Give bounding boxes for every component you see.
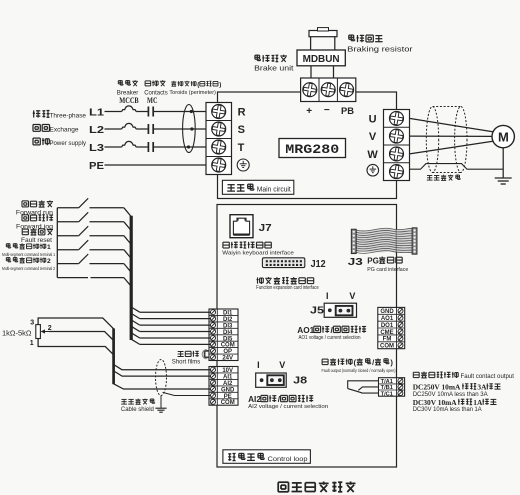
label Power supply: [50, 140, 87, 147]
wire switch row 6 into bundle: [124, 278, 131, 287]
cable shield ellipse (analog): [156, 360, 167, 396]
wire brake unit to - terminal: [333, 66, 335, 78]
label control loop (Chinese): [228, 453, 264, 461]
svg-text:1kΩ-5kΩ: 1kΩ-5kΩ: [2, 328, 32, 337]
wire U to motor: [410, 118, 493, 131]
wire bundle to terminal row 5: [131, 333, 210, 338]
svg-text:Toroids (perimeter): Toroids (perimeter): [169, 90, 216, 96]
svg-text:DC30V 10mA less than 1A: DC30V 10mA less than 1A: [413, 406, 483, 413]
label cable shield (motor, Chinese): [427, 175, 460, 181]
label S2 forward jog (English): [16, 223, 54, 230]
jumper J8: [256, 373, 287, 387]
wire shield drain to PE: [163, 392, 211, 395]
svg-text:Fault output (normally closed: Fault output (normally closed / normally…: [322, 368, 397, 373]
wire bundle to GND: [114, 384, 211, 389]
svg-text:3: 3: [30, 320, 34, 327]
svg-text:J12: J12: [311, 258, 326, 270]
wire L2 to terminal: [154, 128, 212, 130]
wire braking resistor to brake unit (right lead): [334, 37, 336, 50]
title electrical wiring example: [278, 482, 355, 493]
terminal label W: [367, 149, 378, 161]
svg-text:AI2: AI2: [223, 381, 233, 387]
svg-text:CME: CME: [380, 330, 393, 336]
label Exchange: [50, 127, 79, 134]
label Toroids (perimeter): [169, 90, 216, 96]
potentiometer body: [36, 325, 41, 339]
svg-text:): ): [390, 358, 393, 367]
label cable shield (analog, Chinese): [121, 399, 154, 405]
motor earth stem: [502, 148, 504, 178]
label toroid core (Chinese): [171, 81, 221, 88]
potentiometer wiper arrow: [41, 329, 49, 333]
wire V to motor: [410, 135, 493, 137]
svg-text:GND: GND: [380, 309, 394, 315]
svg-text:L3: L3: [89, 142, 104, 154]
terminal strip T/A1 T/B1 T/C1 (relay): [379, 378, 405, 398]
shorting tab (OP to 24V): [202, 350, 209, 359]
wire braking resistor to brake unit (left lead): [310, 37, 312, 50]
wire L3 to terminal: [154, 146, 212, 148]
svg-text:MC: MC: [147, 96, 158, 105]
wire pot terminal 1 into bundle: [38, 339, 114, 355]
svg-text:Multi-segment command terminal: Multi-segment command terminal 2: [2, 266, 56, 271]
svg-text:GND: GND: [221, 387, 235, 393]
label L1: [89, 106, 104, 118]
svg-text:1: 1: [30, 340, 34, 347]
label exchange: [33, 125, 50, 132]
svg-text:DI5: DI5: [223, 336, 233, 342]
common bus for switches: [56, 208, 58, 278]
svg-text:Waiyin keyboard interface: Waiyin keyboard interface: [222, 251, 294, 257]
svg-text:FM: FM: [383, 337, 392, 343]
svg-text:Function expansion card interf: Function expansion card interface: [256, 285, 319, 291]
wire bundle to terminal row 1: [131, 307, 210, 312]
control loop enclosure box: [217, 205, 397, 468]
brake unit MDBUN box: [297, 50, 345, 66]
svg-text:Multi-segment command terminal: Multi-segment command terminal 1: [2, 252, 56, 257]
terminal block R S T PE (input): [206, 103, 232, 175]
wire brake unit to + terminal: [310, 66, 312, 78]
label PG card interface: [367, 267, 408, 273]
label S1 forward run (English): [16, 209, 54, 216]
svg-text:−: −: [324, 105, 330, 116]
wire W to motor: [410, 141, 493, 154]
svg-text:DI3: DI3: [223, 323, 233, 329]
label S5 multi-segment 2 (English): [2, 266, 56, 271]
svg-text:L1: L1: [89, 106, 104, 118]
wire PE to terminal: [105, 164, 213, 166]
svg-text:V: V: [349, 291, 355, 301]
label fault output normally closed/open (Chinese): [322, 358, 393, 367]
label PE: [89, 160, 104, 172]
ground terminal symbol (output PE): [367, 164, 379, 176]
wire switch row 2 into bundle: [124, 222, 131, 231]
label S2 forward jog (Chinese): [22, 215, 53, 222]
label +: [306, 106, 312, 117]
switch S3 fault reset: [57, 226, 124, 236]
shield to earth wire: [160, 396, 162, 408]
label pot terminal 3: [30, 320, 34, 327]
wire COM from bus: [57, 277, 124, 279]
svg-text:OP: OP: [223, 349, 232, 355]
svg-text:AI2 voltage / current selectio: AI2 voltage / current selection: [248, 404, 328, 410]
wire bundle to terminal row 2: [131, 313, 210, 318]
svg-text:DI4: DI4: [223, 330, 233, 336]
label S5 multi-segment 2 (Chinese): [6, 257, 51, 265]
toroid ring core (3-phase choke): [183, 105, 196, 153]
terminal strip + - PB: [301, 78, 356, 102]
label S3 fault reset (Chinese): [22, 228, 53, 235]
switch S4 multi-segment 1: [57, 240, 124, 250]
svg-text:J3: J3: [348, 256, 363, 268]
label power source: [33, 138, 49, 145]
label -: [324, 105, 330, 116]
label S3 fault reset (English): [21, 237, 52, 244]
jumper J5: [324, 303, 356, 317]
earth ground (motor): [495, 178, 512, 184]
contactor MC contact on L2: [136, 124, 153, 134]
label Cable shield: [121, 406, 154, 413]
svg-text:Braking resistor: Braking resistor: [347, 44, 413, 53]
label pot terminal 1: [30, 340, 34, 347]
svg-text:PG: PG: [367, 256, 379, 265]
wire switch row 3 into bundle: [124, 236, 131, 245]
label main circuit (Chinese): [227, 184, 254, 192]
svg-text:PG card interface: PG card interface: [367, 267, 408, 273]
svg-text:T/B1: T/B1: [381, 385, 393, 391]
label AO1 voltage / current selection: [299, 335, 361, 341]
terminal label R: [238, 107, 246, 119]
label pot terminal 2: [48, 325, 52, 332]
label AI2 voltage / current selection: [248, 404, 328, 410]
wire switch row 5 into bundle: [124, 264, 131, 273]
wire L2 with breaker MCCB: [105, 123, 137, 129]
frequency inverter main-circuit enclosure box: [218, 92, 397, 199]
analog wire bundle: [112, 328, 115, 384]
label external keyboard interface (Chinese): [223, 242, 271, 249]
svg-text:J8: J8: [293, 375, 307, 387]
label Three-phase: [50, 113, 87, 120]
svg-text:PB: PB: [341, 106, 354, 117]
connector J12 (pin header): [262, 258, 304, 268]
contactor MC contact on L1: [136, 107, 153, 117]
switch S5 multi-segment 2: [57, 254, 124, 264]
svg-text:10V: 10V: [222, 368, 233, 374]
svg-text:AI2: AI2: [248, 395, 261, 404]
label J8: [293, 375, 307, 387]
motor M: [492, 125, 514, 147]
label J5: [310, 305, 324, 317]
svg-text:PE: PE: [89, 160, 104, 172]
label I (J5): [326, 291, 329, 301]
svg-text:AO1: AO1: [381, 316, 394, 322]
svg-text:Fault contact output: Fault contact output: [461, 373, 515, 380]
label Function expansion card interface: [256, 285, 319, 291]
terminal strip DI1-DI5 COM OP 24V: [209, 309, 238, 362]
wire switch row 1 into bundle: [124, 208, 131, 217]
terminal block U V W (output): [384, 110, 410, 181]
label function expansion card interface (Chinese): [257, 277, 314, 284]
svg-text:2: 2: [48, 325, 52, 332]
svg-text:AO1 voltage / current selectio: AO1 voltage / current selection: [299, 335, 361, 341]
svg-text:2: 2: [47, 258, 51, 265]
wire L1 with breaker MCCB: [105, 106, 137, 112]
svg-text:L2: L2: [89, 124, 104, 136]
label short films (Chinese): [178, 351, 199, 357]
svg-text:Short films: Short films: [172, 358, 201, 365]
connector J3 ribbon cable: [351, 228, 417, 254]
svg-text:W: W: [367, 149, 378, 161]
label J3: [348, 256, 363, 268]
switch S2 forward jog: [57, 212, 124, 222]
svg-text:I: I: [257, 360, 260, 370]
label Breaker: [117, 90, 139, 97]
ground terminal symbol (input PE): [237, 159, 249, 171]
label fault contact output (Chinese): [413, 372, 458, 378]
svg-text:+: +: [306, 106, 312, 117]
label DC30V 10mA less than 1A: [413, 406, 483, 413]
svg-text:J7: J7: [259, 223, 273, 234]
label Braking resistor: [347, 44, 413, 53]
digital input wire bundle: [130, 216, 133, 340]
terminal strip GND AO1 DO1 CME FM COM: [378, 307, 405, 349]
control loop label box: [223, 450, 311, 464]
svg-text:DO1: DO1: [381, 323, 394, 329]
wire pot terminal 3 into bundle: [38, 318, 114, 329]
main circuit label box: [222, 180, 293, 194]
label S4 multi-segment 1 (Chinese): [6, 243, 51, 251]
label PB: [341, 106, 354, 117]
svg-text:PE: PE: [224, 394, 232, 400]
label breaker (Chinese): [118, 80, 138, 86]
label S4 multi-segment 1 (English): [2, 252, 56, 257]
svg-text:1: 1: [47, 244, 51, 251]
label Control loop: [268, 456, 308, 463]
label AI2 voltage/current selection (Chinese): [248, 395, 313, 404]
svg-text:T/A1: T/A1: [381, 379, 393, 385]
wire L3 with breaker MCCB: [105, 141, 137, 147]
svg-text:COM: COM: [221, 400, 235, 406]
label L3: [89, 142, 104, 154]
svg-text:Main circuit: Main circuit: [257, 187, 291, 194]
svg-text:Power supply: Power supply: [50, 140, 87, 147]
svg-text:U: U: [369, 114, 377, 126]
svg-text:R: R: [238, 107, 246, 119]
wire pot wiper into bundle: [49, 332, 114, 341]
wire bundle to terminal row 3: [131, 320, 210, 325]
svg-text:S: S: [238, 124, 245, 136]
relay changeover contact: [348, 381, 379, 393]
wire bundle to 10V: [114, 365, 211, 370]
earth ground (cable shield): [155, 408, 166, 412]
svg-text:DI2: DI2: [223, 317, 233, 323]
shielded cable (motor output): [426, 107, 467, 173]
terminal label T: [238, 142, 245, 154]
label Main circuit: [257, 187, 291, 194]
svg-text:): ): [219, 81, 221, 88]
label DC250V rating: [413, 383, 501, 392]
connector J7 (keyboard jack): [230, 215, 253, 238]
label V (J8): [279, 360, 285, 370]
svg-text:Three-phase: Three-phase: [50, 113, 87, 120]
svg-text:DI1: DI1: [223, 311, 233, 317]
label 1kOhm-5kOhm: [2, 328, 32, 337]
wire bundle to AI1: [114, 371, 211, 376]
terminal label V: [369, 131, 377, 143]
svg-text:Cable shield: Cable shield: [121, 406, 154, 413]
label J7: [259, 223, 273, 234]
label V (J5): [349, 291, 355, 301]
label J12: [311, 258, 326, 270]
switch S1 forward run: [57, 198, 124, 208]
svg-text:J5: J5: [310, 305, 324, 317]
label three-phase AC power supply (Chinese+English): [33, 110, 50, 117]
svg-text:Exchange: Exchange: [50, 127, 79, 134]
label PG card interface (Chinese): [367, 256, 402, 265]
label Fault output (normally closed / normally open): [322, 368, 397, 373]
inverter label MRG280 box: [279, 139, 346, 158]
braking resistor: [309, 28, 337, 37]
svg-text:24V: 24V: [222, 356, 233, 362]
svg-text:V: V: [279, 360, 285, 370]
svg-text:MRG280: MRG280: [285, 143, 339, 157]
wire bundle to terminal row 4: [131, 326, 210, 331]
wire switch row 4 into bundle: [124, 250, 131, 259]
label L2: [89, 124, 104, 136]
svg-text:Control loop: Control loop: [268, 456, 308, 463]
svg-text:AI1: AI1: [223, 374, 233, 380]
label braking resistor (Chinese): [349, 35, 383, 43]
svg-text:COM: COM: [221, 343, 235, 349]
label Waiyin keyboard interface: [222, 251, 294, 257]
label DC250V 10mA less than 3A: [413, 391, 489, 398]
label Short films: [172, 358, 201, 365]
label brake unit (Chinese): [255, 55, 287, 62]
svg-text:M: M: [498, 130, 509, 145]
label contactor (Chinese): [145, 80, 165, 86]
wire L1 to terminal: [154, 111, 212, 113]
svg-text:COM: COM: [380, 344, 394, 350]
label Brake unit: [254, 63, 293, 72]
terminal strip 10V AI1 AI2 GND PE COM: [209, 367, 238, 407]
svg-text:Brake unit: Brake unit: [254, 63, 293, 72]
label Fault contact output: [461, 373, 515, 380]
terminal label U: [369, 114, 377, 126]
terminal label S: [238, 124, 245, 136]
svg-text:MCCB: MCCB: [119, 96, 139, 105]
svg-text:AO1: AO1: [297, 326, 314, 335]
svg-text:T/C1: T/C1: [381, 391, 393, 397]
label S1 forward run (Chinese): [22, 200, 53, 207]
wire bundle to terminal row 6: [131, 339, 210, 344]
label I (J8): [257, 360, 260, 370]
label MCCB: [119, 96, 139, 105]
label Contacts: [144, 90, 168, 97]
svg-text:I: I: [326, 291, 329, 301]
svg-text:(: (: [354, 358, 357, 367]
svg-text:T: T: [238, 142, 245, 154]
svg-text:MDBUN: MDBUN: [303, 54, 340, 65]
label AO1 voltage/current selection (Chinese): [297, 326, 366, 335]
label DC30V rating: [413, 398, 497, 407]
contactor MC contact on L3: [136, 142, 153, 152]
label MC: [147, 96, 158, 105]
svg-text:V: V: [369, 131, 377, 143]
wire output PE to earth: [410, 164, 504, 170]
